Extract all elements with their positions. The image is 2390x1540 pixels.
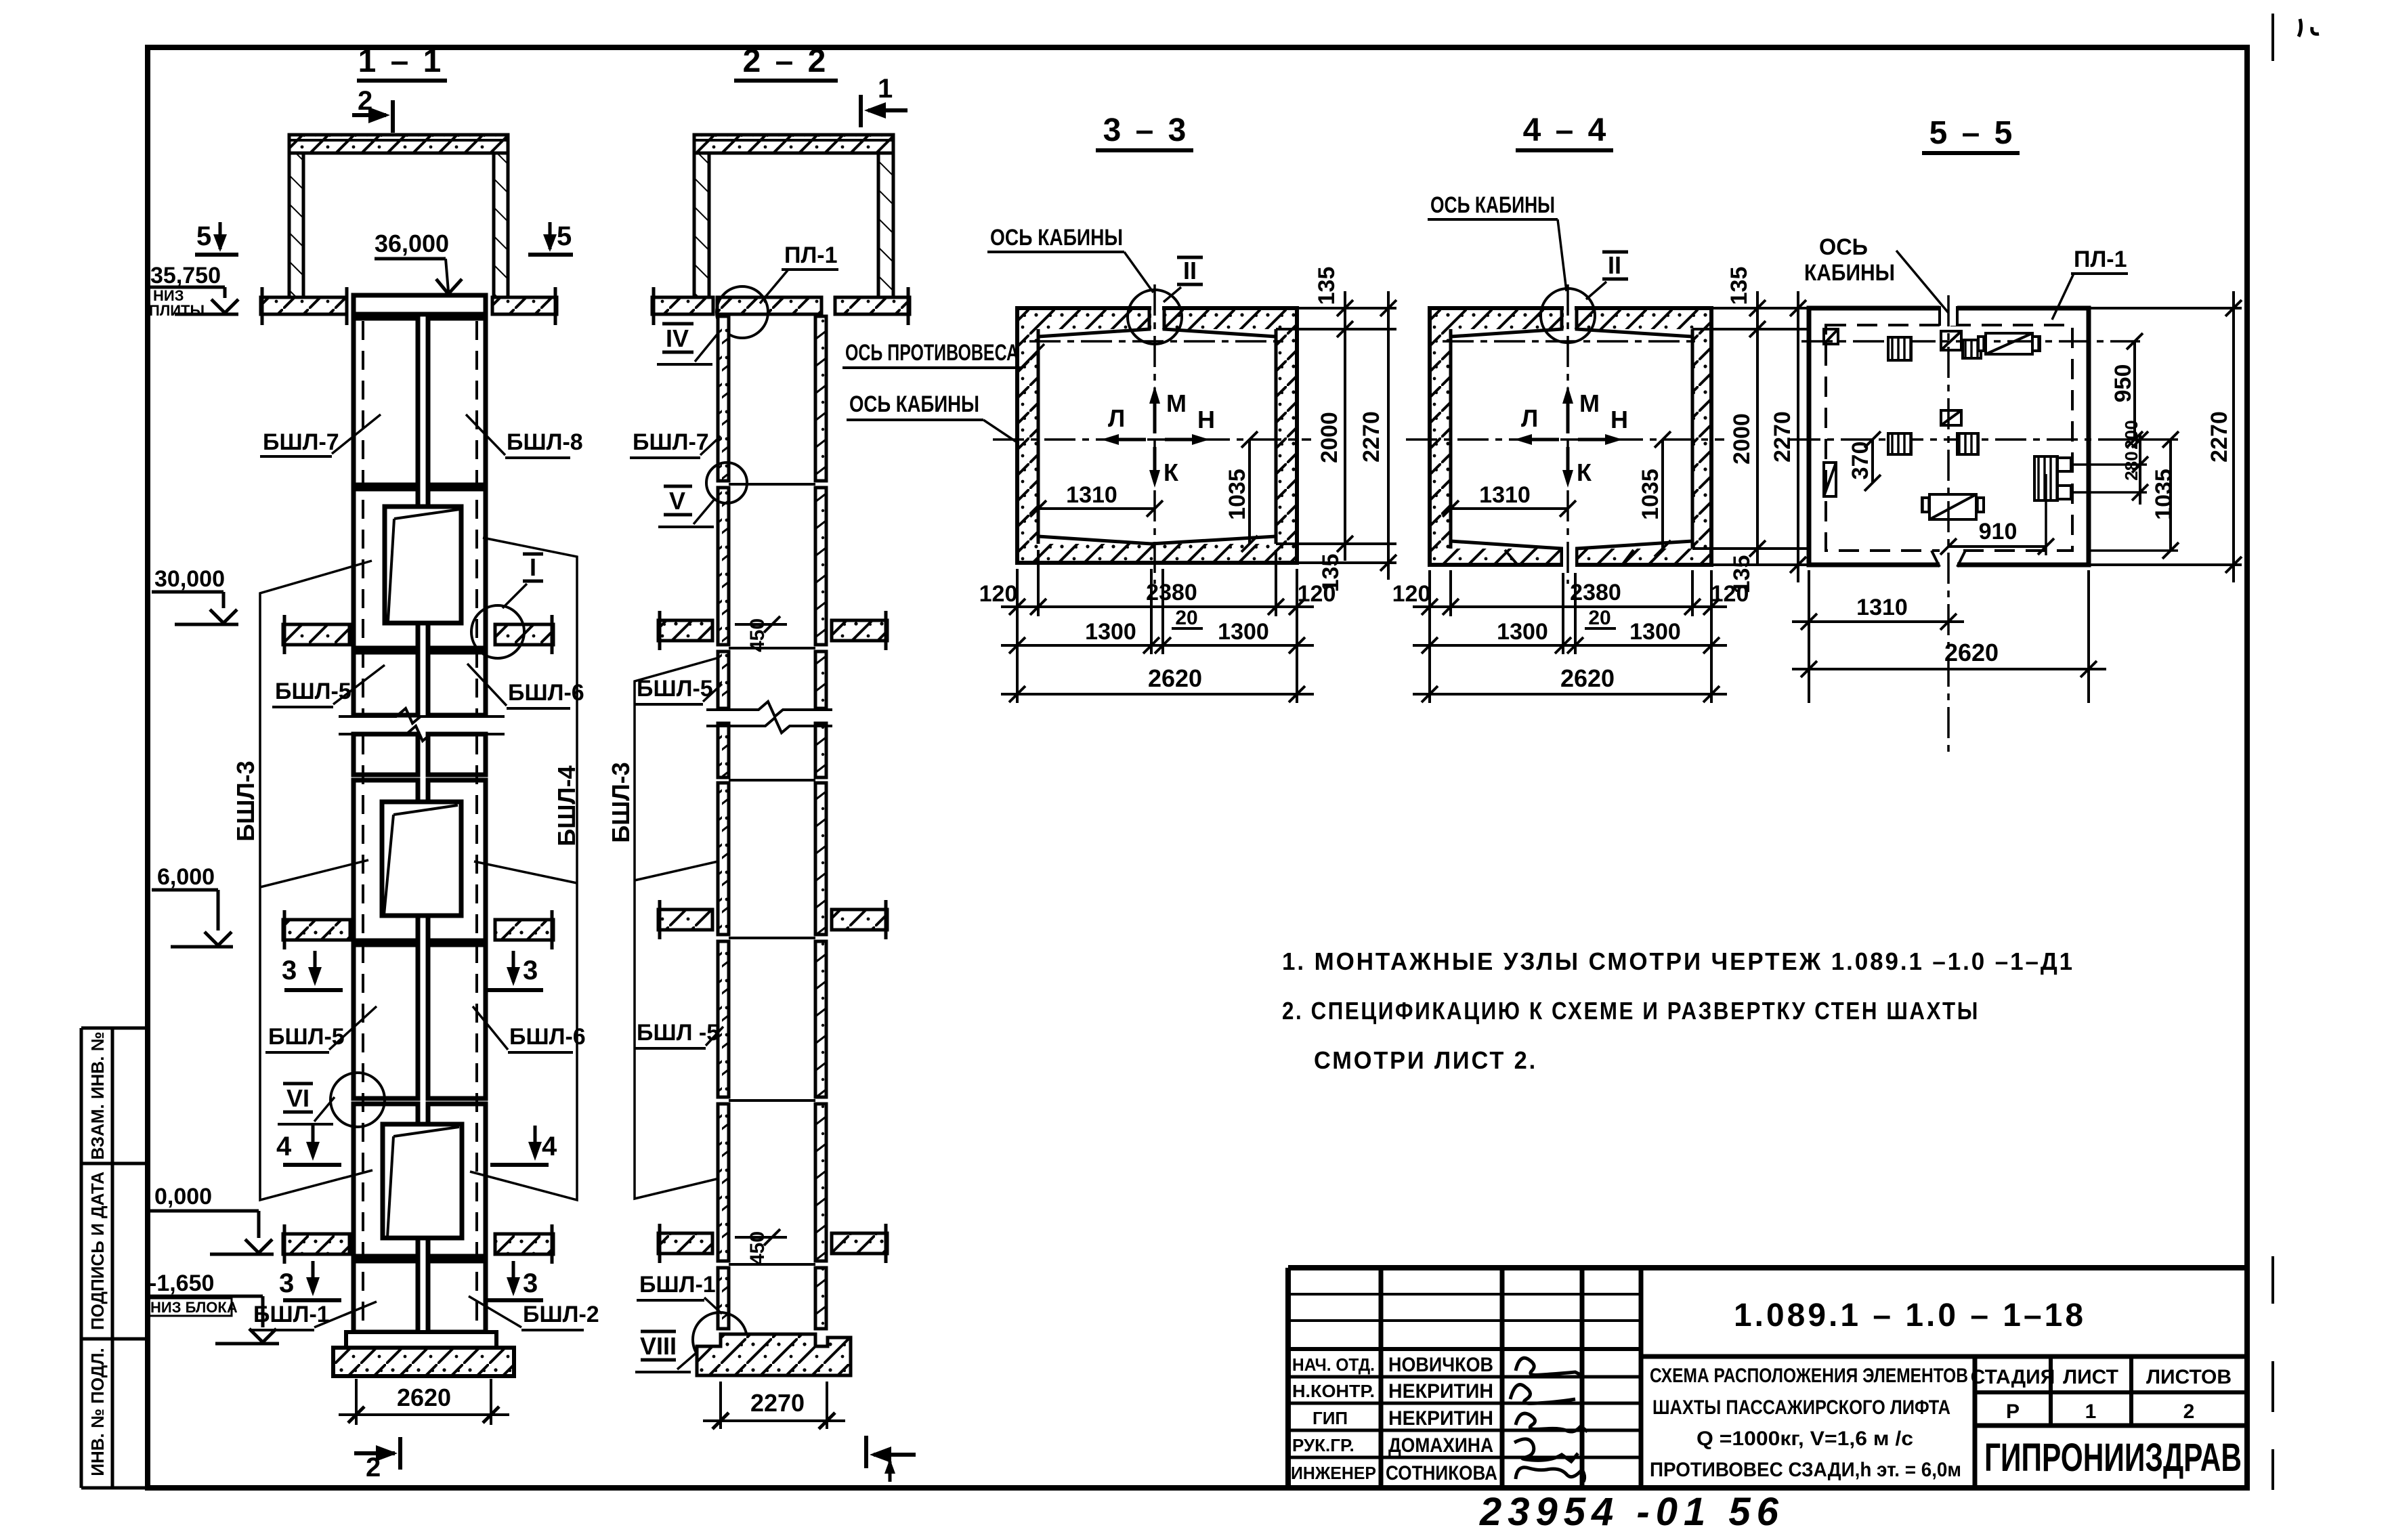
label БШЛ-1 (1-1): [251, 1302, 377, 1330]
dim 910 (5-5): [1940, 474, 2054, 555]
svg-text:ПЛ-1: ПЛ-1: [784, 242, 838, 268]
svg-text:120: 120: [1298, 581, 1336, 607]
storey slab 0m left (1-1): [283, 1224, 349, 1264]
cut mark 3 upper-left: [282, 951, 343, 990]
section 1-1 title: [357, 43, 447, 81]
svg-text:135: 135: [1314, 267, 1340, 305]
svg-text:Л: Л: [1108, 404, 1125, 432]
svg-text:910: 910: [1979, 519, 2018, 544]
svg-text:БШЛ -5: БШЛ -5: [637, 1020, 719, 1046]
break lines (storey omission) 2-2: [706, 702, 832, 733]
label II with leader (4-4): [1586, 251, 1628, 299]
svg-text:М: М: [1166, 389, 1187, 417]
machine floor left slab (1-1): [261, 287, 347, 325]
cut mark 3 lower-left: [279, 1261, 341, 1300]
elevation 35,750 НИЗ ПЛИТЫ: [148, 263, 238, 319]
plan 4-4 title: [1516, 112, 1613, 150]
svg-text:2 – 2: 2 – 2: [743, 43, 829, 79]
machine room roof slab (1-1): [289, 135, 508, 153]
door opening level 30m: [385, 507, 461, 623]
svg-text:35,750: 35,750: [150, 263, 221, 288]
svg-text:РУК.ГР.: РУК.ГР.: [1292, 1435, 1354, 1455]
svg-text:I: I: [530, 553, 536, 581]
svg-text:Н.КОНТР.: Н.КОНТР.: [1292, 1381, 1375, 1401]
label БШЛ-6 lower (1-1): [473, 1006, 586, 1052]
storey slab 30m left (1-1): [283, 615, 349, 654]
svg-text:23954 -01 56: 23954 -01 56: [1479, 1490, 1785, 1534]
shaft 1-1 panel row 5: [354, 945, 418, 1098]
svg-text:1310: 1310: [1066, 482, 1117, 508]
cut mark 5 left: [195, 221, 238, 255]
svg-text:2: 2: [2183, 1400, 2195, 1423]
svg-text:2: 2: [358, 86, 372, 116]
svg-text:ОСЬ ПРОТИВОВЕСА: ОСЬ ПРОТИВОВЕСА: [845, 340, 1019, 366]
dim 950 (5-5): [2110, 333, 2143, 448]
label 36,000 with leader: [375, 230, 462, 294]
label V with leader: [658, 486, 715, 527]
svg-text:2380: 2380: [1146, 580, 1197, 605]
detail circle IV: [717, 286, 768, 338]
cut mark 3 lower-right: [485, 1261, 543, 1300]
450 dim at 0m (2-2): [735, 1229, 787, 1265]
storey slab 30m left (2-2): [658, 611, 712, 650]
storey slab 6m left (2-2): [658, 900, 712, 939]
svg-text:2: 2: [366, 1453, 381, 1482]
svg-text:БШЛ-3: БШЛ-3: [232, 761, 259, 841]
machine room roof slab (2-2): [694, 135, 893, 153]
svg-text:4 – 4: 4 – 4: [1523, 112, 1609, 148]
label БШЛ-6 upper (1-1): [467, 664, 584, 708]
svg-text:450: 450: [746, 618, 769, 652]
dim 1035 inside (3-3): [1224, 431, 1258, 552]
svg-text:БШЛ-3: БШЛ-3: [607, 762, 635, 842]
dims 200/280 (5-5): [2074, 420, 2148, 505]
4-4 inner square: [1451, 308, 1692, 565]
svg-text:Н: Н: [1610, 406, 1628, 433]
shaft 1-1 panel row 4: [354, 780, 418, 941]
svg-text:120: 120: [1392, 581, 1431, 607]
detail circle VI: [330, 1073, 385, 1127]
shaft 1-1 panel row 1 left (БШЛ-7): [354, 318, 418, 485]
machine room left wall (1-1): [289, 153, 303, 297]
svg-text:2000: 2000: [1729, 413, 1755, 465]
part: guide block B: [1963, 340, 1981, 358]
detail circle V: [706, 463, 747, 503]
signatures: [1510, 1358, 1587, 1482]
detail circle I: [471, 605, 524, 658]
svg-text:1035: 1035: [1224, 469, 1250, 520]
cut mark 4 right: [490, 1126, 557, 1165]
svg-text:2620: 2620: [1944, 639, 1999, 666]
right dims 2000/2270/135 (4-4): [1692, 291, 1810, 582]
svg-text:5: 5: [196, 221, 211, 251]
label БШЛ-1 (2-2): [637, 1272, 722, 1314]
5-5 top opening: [1940, 305, 1957, 326]
label БШЛ-5 lower (1-1): [265, 1006, 377, 1052]
bottom dims (3-3): [1001, 550, 1314, 703]
fold dashes right margin: [2271, 14, 2274, 1490]
machine room right wall (1-1): [494, 153, 508, 297]
shaft 1-1 panel row 3b: [354, 734, 418, 775]
svg-text:СОТНИКОВА: СОТНИКОВА: [1386, 1462, 1497, 1484]
detail circle VIII: [693, 1312, 747, 1367]
5-5 bottom opening: [1932, 547, 1965, 568]
bottom dims 1310/2620 (5-5): [1792, 570, 2106, 703]
svg-text:20: 20: [1175, 607, 1197, 629]
part: motor bottom: [1922, 498, 1929, 512]
svg-text:370: 370: [1848, 442, 1873, 480]
dimension 2270 (2-2 bottom): [703, 1382, 845, 1429]
label ОСЬ ПРОТИВОВЕСА (3-3): [842, 340, 1044, 368]
svg-text:ОСЬ КАБИНЫ: ОСЬ КАБИНЫ: [990, 225, 1123, 251]
shaft 1-1 panel row 2 left: [354, 489, 418, 648]
right dims 2000/2270/135 (3-3): [1276, 291, 1396, 580]
label ОСЬ КАБИНЫ (left 3-3): [847, 391, 1016, 442]
label БШЛ-7 (1-1): [260, 414, 381, 456]
svg-text:НОВИЧКОВ: НОВИЧКОВ: [1388, 1354, 1493, 1376]
svg-text:1035: 1035: [2151, 469, 2177, 520]
svg-text:ГИПРОНИИЗДРАВ: ГИПРОНИИЗДРАВ: [1984, 1436, 2242, 1480]
svg-text:ЛИСТ: ЛИСТ: [2063, 1366, 2118, 1388]
part: guide block A: [1888, 337, 1911, 360]
svg-text:1. МОНТАЖНЫЕ УЗЛЫ СМОТРИ ЧЕ: 1. МОНТАЖНЫЕ УЗЛЫ СМОТРИ ЧЕРТЕЖ 1.089.1 …: [1282, 947, 2074, 975]
dim 1310 inside (3-3): [1030, 482, 1163, 517]
svg-text:БШЛ-7: БШЛ-7: [263, 429, 339, 455]
part: motor top: [1978, 337, 1986, 351]
left attachment strip: [81, 1028, 148, 1488]
svg-text:II: II: [1183, 257, 1197, 284]
svg-text:НЕКРИТИН: НЕКРИТИН: [1388, 1380, 1493, 1403]
dim 2270 right (5-5): [2089, 291, 2242, 582]
svg-text:БШЛ-1: БШЛ-1: [639, 1272, 716, 1298]
svg-text:120: 120: [1711, 581, 1749, 607]
svg-text:1: 1: [878, 74, 893, 104]
machine floor slab ПЛ-1 (2-2, hatched): [717, 297, 821, 314]
svg-text:950: 950: [2110, 364, 2136, 403]
label БШЛ-7 (2-2): [630, 429, 721, 458]
top right pen marks: [2299, 19, 2319, 37]
door opening level 0m: [383, 1124, 462, 1238]
part: top-left anchor plate: [1824, 329, 1838, 344]
cut mark 4 left: [276, 1126, 341, 1165]
bracket polygon БШЛ-4 right (1-1): [470, 538, 577, 1200]
svg-text:ИНЖЕНЕР: ИНЖЕНЕР: [1291, 1463, 1376, 1483]
svg-text:135: 135: [1726, 267, 1752, 305]
svg-text:30,000: 30,000: [154, 566, 225, 592]
machine room left wall (2-2): [694, 153, 709, 297]
svg-text:БШЛ-8: БШЛ-8: [507, 429, 583, 455]
label ОСЬ КАБИНЫ (top 3-3): [987, 225, 1153, 293]
svg-text:СМОТРИ ЛИСТ 2.: СМОТРИ ЛИСТ 2.: [1314, 1046, 1537, 1074]
svg-text:К: К: [1164, 458, 1179, 486]
svg-text:ИНВ. № ПОДЛ.: ИНВ. № ПОДЛ.: [87, 1348, 108, 1476]
label БШЛ-5 lower (2-2): [634, 1020, 723, 1048]
5-5 slab ПЛ-1 dashed outline: [1826, 325, 2072, 551]
storey slab 6m right (1-1): [495, 910, 553, 949]
svg-text:2620: 2620: [1560, 664, 1615, 692]
shaft 1-1 panel row 3: [354, 652, 418, 715]
machine floor right slab (2-2): [835, 287, 910, 325]
svg-text:СТАДИЯ: СТАДИЯ: [1971, 1366, 2055, 1388]
svg-text:2380: 2380: [1570, 580, 1621, 605]
svg-text:3: 3: [523, 1268, 538, 1298]
label VIII with leader: [635, 1331, 698, 1372]
svg-text:1300: 1300: [1629, 619, 1681, 645]
plan 5-5 title: [1922, 115, 2020, 153]
svg-text:200: 200: [2121, 420, 2141, 449]
label БШЛ-8 (1-1): [466, 414, 583, 458]
bracket polygon БШЛ-3 (2-2): [635, 658, 719, 1199]
detail circle II (4-4): [1541, 288, 1595, 343]
svg-text:VIII: VIII: [640, 1332, 677, 1360]
3-3 top wall gap: [1151, 306, 1162, 330]
svg-text:-1,650: -1,650: [149, 1270, 214, 1296]
svg-text:3 – 3: 3 – 3: [1103, 112, 1189, 148]
svg-text:Р: Р: [2006, 1400, 2020, 1423]
axes 3-3: [993, 284, 1311, 584]
shaft 1-1 panel row 7 (БШЛ-1/2): [354, 1261, 418, 1332]
cut mark 2 (bottom of 1-1): [354, 1437, 400, 1482]
4-4 top wall gap: [1564, 306, 1575, 330]
svg-text:2620: 2620: [397, 1384, 451, 1411]
label ПЛ-1 (2-2): [760, 242, 838, 303]
5-5 outer square: [1809, 308, 2089, 565]
title block row titles: [1291, 1354, 1376, 1483]
svg-text:ПРОТИВОВЕС СЗАДИ,h эт. = 6,0м: ПРОТИВОВЕС СЗАДИ,h эт. = 6,0м: [1650, 1459, 1961, 1481]
title block names: [1386, 1354, 1497, 1484]
part: guide block C: [1888, 433, 1911, 454]
svg-text:БШЛ-6: БШЛ-6: [508, 680, 584, 706]
svg-text:Н: Н: [1197, 406, 1215, 433]
label ПЛ-1 (5-5): [2052, 247, 2128, 320]
svg-text:2. СПЕЦИФИКАЦИЮ К СХЕМЕ И РА: 2. СПЕЦИФИКАЦИЮ К СХЕМЕ И РАЗВЕРТКУ СТЕН…: [1282, 997, 1980, 1025]
bracket polygon БШЛ-3 left (1-1): [260, 561, 372, 1200]
svg-text:2000: 2000: [1317, 412, 1342, 463]
label IV with leader: [657, 324, 719, 364]
shaft 2-2 left wall segments: [718, 316, 729, 1329]
svg-text:1310: 1310: [1856, 595, 1908, 620]
svg-text:ДОМАХИНА: ДОМАХИНА: [1388, 1434, 1493, 1457]
svg-text:1300: 1300: [1085, 619, 1136, 645]
svg-text:БШЛ-6: БШЛ-6: [509, 1024, 586, 1050]
label БШЛ-5 upper (2-2): [634, 676, 722, 704]
svg-text:БШЛ-4: БШЛ-4: [553, 765, 580, 846]
svg-text:1 – 1: 1 – 1: [358, 43, 444, 79]
title block grid: [1288, 1268, 2247, 1488]
svg-text:БШЛ-7: БШЛ-7: [633, 429, 709, 455]
pit slab (1-1): [333, 1348, 514, 1376]
svg-text:ОСЬ КАБИНЫ: ОСЬ КАБИНЫ: [1430, 192, 1555, 218]
scheme description text: [1650, 1365, 1968, 1481]
elevation 30,000: [152, 566, 238, 624]
dim 1035 inside (4-4): [1638, 431, 1671, 557]
svg-text:НИЗ БЛОКА: НИЗ БЛОКА: [150, 1299, 238, 1316]
label БШЛ-5 upper (1-1): [272, 665, 385, 707]
machine room right wall (2-2): [878, 153, 893, 297]
axes 5-5: [1789, 295, 2140, 758]
elevation -1,650 НИЗ БЛОКА: [146, 1270, 279, 1344]
svg-text:СХЕМА РАСПОЛОЖЕНИЯ ЭЛЕМЕНТОВ: СХЕМА РАСПОЛОЖЕНИЯ ЭЛЕМЕНТОВ: [1650, 1365, 1968, 1387]
storey slab 0m right (1-1): [495, 1224, 553, 1264]
svg-text:IV: IV: [666, 324, 689, 352]
svg-text:ШАХТЫ ПАССАЖИРСКОГО ЛИФТА: ШАХТЫ ПАССАЖИРСКОГО ЛИФТА: [1652, 1396, 1950, 1419]
svg-text:ЛИСТОВ: ЛИСТОВ: [2146, 1366, 2232, 1388]
svg-text:4: 4: [542, 1132, 557, 1161]
svg-text:БШЛ-2: БШЛ-2: [523, 1302, 599, 1327]
svg-text:1300: 1300: [1218, 619, 1269, 645]
center arrows МЛНК (3-3): [1101, 386, 1215, 488]
svg-text:ОСЬ: ОСЬ: [1819, 234, 1868, 260]
label ОСЬ КАБИНЫ (top 4-4): [1428, 192, 1566, 291]
part: centre bracket middle: [1941, 410, 1961, 425]
svg-text:ГИП: ГИП: [1313, 1408, 1348, 1428]
label ОСЬ КАБИНЫ (5-5): [1804, 234, 1948, 313]
part: right limiter assembly: [2034, 456, 2057, 500]
4-4 bottom wall door gap: [1505, 546, 1634, 568]
svg-text:5 – 5: 5 – 5: [1929, 115, 2015, 151]
hidden edge dashed lines 1-1: [363, 321, 477, 1329]
svg-text:VI: VI: [286, 1084, 310, 1112]
dim 1035 (5-5): [2089, 431, 2179, 559]
svg-text:4: 4: [276, 1132, 292, 1161]
cut mark 1 (bottom of 2-2): [866, 1436, 916, 1482]
svg-text:1035: 1035: [1638, 469, 1663, 520]
section 2-2 title: [734, 43, 838, 81]
shaft 1-1 panel row 2 right: [428, 489, 486, 648]
svg-text:К: К: [1577, 458, 1592, 486]
svg-text:3: 3: [523, 956, 538, 985]
svg-text:2270: 2270: [750, 1389, 805, 1417]
cut mark 1 (top of 2-2): [861, 74, 908, 127]
svg-text:Q =1000кг, V=1,6 м /с: Q =1000кг, V=1,6 м /с: [1697, 1428, 1913, 1450]
svg-text:Л: Л: [1521, 404, 1538, 432]
svg-text:0,000: 0,000: [154, 1184, 212, 1210]
3-3 inner square: [1038, 308, 1276, 544]
svg-text:ПОДПИСЬ И ДАТА: ПОДПИСЬ И ДАТА: [87, 1172, 108, 1330]
label II with leader (3-3): [1164, 257, 1203, 302]
storey slab 30m right (1-1): [495, 615, 553, 654]
svg-text:НАЧ. ОТД.: НАЧ. ОТД.: [1292, 1354, 1375, 1375]
svg-text:ОСЬ КАБИНЫ: ОСЬ КАБИНЫ: [849, 391, 979, 417]
shaft 1-1 panel row 1 right (БШЛ-8): [428, 318, 486, 485]
label I with leader: [503, 553, 543, 608]
svg-text:36,000: 36,000: [375, 230, 449, 257]
machine floor left slab (2-2): [652, 287, 713, 325]
shaft 2-2 right wall segments: [815, 316, 826, 1329]
svg-text:5: 5: [557, 221, 572, 251]
svg-text:2270: 2270: [1359, 411, 1384, 463]
detail circle II (3-3): [1128, 290, 1182, 344]
svg-text:V: V: [669, 487, 685, 515]
svg-text:ПЛИТЫ: ПЛИТЫ: [149, 302, 205, 319]
storey slab 30m right (2-2): [832, 611, 887, 650]
bottom dims (4-4): [1413, 570, 1727, 703]
svg-text:ПЛ-1: ПЛ-1: [2074, 247, 2127, 272]
4-4 outer square: [1430, 308, 1711, 565]
pit ledge (1-1): [346, 1332, 496, 1348]
elevation 0,000: [150, 1184, 274, 1254]
svg-text:1.089.1 – 1.0 – 1–18: 1.089.1 – 1.0 – 1–18: [1734, 1298, 2086, 1333]
svg-text:450: 450: [746, 1231, 769, 1265]
svg-text:20: 20: [1588, 607, 1610, 629]
part: left bumper: [1824, 463, 1836, 496]
svg-text:ВЗАМ. ИНВ. №: ВЗАМ. ИНВ. №: [87, 1031, 108, 1159]
4-4 wall ring hatched: [1430, 308, 1711, 565]
part: centre bracket top: [1941, 331, 1961, 350]
plan 3-3 title: [1096, 112, 1193, 150]
dim 370 (5-5): [1848, 431, 1881, 491]
svg-text:БШЛ-1: БШЛ-1: [253, 1302, 330, 1327]
storey slab 6m left (1-1): [283, 910, 350, 949]
elevation 6,000: [152, 864, 233, 947]
svg-text:120: 120: [979, 581, 1018, 607]
machine parts (5-5): [1824, 329, 2071, 519]
svg-text:КАБИНЫ: КАБИНЫ: [1804, 260, 1895, 286]
machine floor right slab (1-1): [492, 287, 557, 325]
label БШЛ-2 (1-1): [469, 1296, 599, 1330]
svg-text:3: 3: [282, 956, 297, 985]
storey slab 0m left (2-2): [658, 1224, 712, 1263]
dim 1310 inside (4-4): [1443, 482, 1576, 517]
svg-text:6,000: 6,000: [157, 864, 215, 890]
cut mark 3 upper-right: [485, 951, 543, 990]
svg-text:1310: 1310: [1479, 482, 1531, 508]
svg-text:1: 1: [2085, 1400, 2097, 1423]
shaft 1-1 panel row 6: [354, 1104, 418, 1256]
dimension 2620 (1-1 bottom): [339, 1379, 509, 1425]
label VI with leader: [278, 1084, 335, 1124]
svg-text:2270: 2270: [1770, 411, 1795, 463]
svg-text:1300: 1300: [1497, 619, 1548, 645]
svg-text:280: 280: [2121, 451, 2141, 480]
svg-text:II: II: [1608, 251, 1621, 279]
svg-text:НЕКРИТИН: НЕКРИТИН: [1388, 1407, 1493, 1430]
slab ПЛ-1 in 1-1 (plain): [354, 295, 486, 314]
storey slab 6m right (2-2): [832, 900, 887, 939]
storey slab 0m right (2-2): [832, 1224, 887, 1263]
interior joint lines across shaft 2-2: [729, 484, 815, 1264]
cut mark 2 (top of 1-1): [352, 100, 393, 133]
svg-text:2270: 2270: [2206, 411, 2232, 463]
450 dim at 30m (2-2): [735, 616, 787, 652]
center arrows МЛНК (4-4): [1514, 386, 1628, 488]
svg-text:М: М: [1579, 389, 1600, 417]
3-3 wall ring hatched: [1017, 308, 1297, 563]
pit slab (2-2) stepped: [697, 1334, 851, 1375]
svg-text:БШЛ-5: БШЛ-5: [637, 676, 713, 702]
svg-text:2620: 2620: [1148, 664, 1202, 692]
axes 4-4: [1406, 284, 1724, 584]
cut mark 5 right: [528, 221, 573, 255]
stage/sheet headers: [1971, 1366, 2232, 1423]
svg-text:3: 3: [279, 1268, 294, 1298]
door opening level 6m: [382, 802, 461, 916]
part: guide block D: [1957, 433, 1978, 454]
3-3 outer square: [1017, 308, 1297, 563]
break lines (storey omission) 1-1: [339, 708, 505, 741]
notes text: [1282, 947, 2074, 1074]
